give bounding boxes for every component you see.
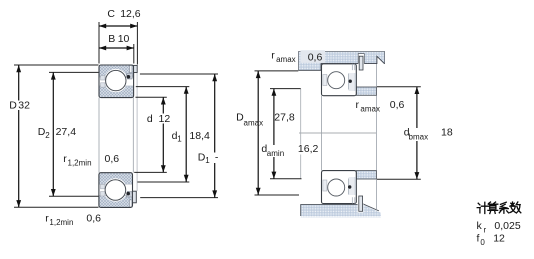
mounted bearing lower	[322, 171, 357, 204]
cage upper	[101, 76, 105, 80]
extension line d1 bottom	[137, 181, 189, 183]
svg-text:12: 12	[159, 113, 171, 125]
dimension line D	[18, 65, 20, 207]
svg-text:amin: amin	[267, 149, 284, 158]
svg-text:1,2min: 1,2min	[68, 159, 92, 168]
extension line D top	[14, 64, 99, 66]
housing upper shoulder block	[299, 52, 322, 71]
svg-text:0,6: 0,6	[105, 153, 120, 165]
svg-text:-: -	[215, 151, 219, 163]
centerline right drawing	[299, 132, 376, 134]
housing lower	[301, 205, 381, 216]
svg-text:f: f	[477, 233, 480, 245]
housing upper edges	[299, 52, 385, 71]
svg-text:27,8: 27,8	[274, 111, 295, 123]
svg-text:18: 18	[441, 126, 453, 138]
raceway marks lower left	[323, 180, 327, 191]
wire: bearing side lines between halves right	[132, 98, 134, 173]
cage lower	[101, 184, 105, 188]
extension line Damax bottom	[255, 194, 300, 196]
dimension line damin	[273, 89, 275, 179]
svg-text:B: B	[108, 33, 115, 45]
glyph xi	[499, 202, 508, 213]
extension line D1 bottom	[140, 197, 218, 199]
shaft shoulder strip upper	[356, 87, 376, 95]
extension line d top	[136, 96, 167, 98]
bearing outline lower	[99, 173, 133, 208]
glyph suan	[488, 202, 498, 214]
circlip wire section upper	[127, 75, 131, 79]
extension line D2 top	[49, 71, 99, 73]
ball mounted lower	[328, 179, 345, 196]
svg-text:12,6: 12,6	[120, 8, 141, 20]
raceway shoulder lines upper	[99, 76, 134, 78]
svg-text:r: r	[356, 99, 360, 111]
ball lower	[105, 180, 126, 201]
extension line D2 bottom	[49, 195, 99, 197]
dimension line dbmax	[416, 87, 418, 180]
housing upper band	[321, 52, 377, 64]
svg-text:D: D	[9, 99, 17, 111]
extension line B right	[133, 44, 135, 64]
svg-text:r: r	[484, 225, 487, 234]
circlip section mounted upper	[349, 80, 352, 83]
svg-text:0,6: 0,6	[390, 99, 405, 111]
housing lower soft bottom	[301, 216, 381, 218]
svg-text:amax: amax	[360, 105, 380, 114]
inner ring upper	[99, 86, 134, 98]
extension line Damax top	[255, 70, 299, 72]
circlip wire section lower	[126, 192, 130, 196]
label d 12	[157, 114, 171, 124]
svg-text:k: k	[477, 220, 483, 232]
circlip groove lower	[129, 200, 132, 207]
extension line D1 top	[140, 73, 218, 75]
extension line dbmax top	[377, 86, 421, 88]
circlip seat lower	[126, 192, 133, 198]
circlip seat upper	[127, 74, 134, 80]
heading 计算系数 (hand drawn glyphs)	[477, 202, 521, 214]
svg-text:16,2: 16,2	[298, 143, 319, 155]
svg-text:0,025: 0,025	[494, 220, 520, 232]
extension line damin top	[270, 88, 301, 90]
snap ring slot upper	[358, 54, 364, 64]
raceway clearing upper	[104, 69, 127, 92]
svg-text:10: 10	[118, 33, 130, 45]
svg-text:d: d	[147, 113, 153, 125]
ball upper	[106, 70, 126, 90]
svg-text:0: 0	[480, 238, 485, 247]
extension line dbmax bottom	[377, 178, 421, 180]
dimension line B	[99, 47, 134, 49]
shaft shoulder strip lower	[356, 171, 376, 179]
svg-text:32: 32	[18, 99, 30, 111]
bearing outline upper	[99, 65, 134, 98]
svg-text:bmax: bmax	[409, 132, 429, 141]
circlip section mounted lower	[348, 185, 351, 188]
dimension line D1	[214, 74, 216, 198]
raceway marks lower right	[349, 177, 356, 195]
housing lower top edge	[301, 204, 379, 216]
extension line damin bottom	[270, 178, 302, 180]
dimension line d1	[185, 87, 187, 182]
label D 32	[17, 101, 31, 111]
svg-text:1,2min: 1,2min	[49, 218, 73, 227]
svg-text:1: 1	[205, 156, 210, 165]
wire: snap ring edge line between halves	[136, 73, 138, 192]
svg-text:0,6: 0,6	[308, 52, 323, 64]
bearing lower half section	[99, 173, 136, 208]
glyph ji	[477, 202, 488, 213]
dimension line Damax	[257, 71, 259, 195]
extension line C left	[98, 22, 100, 64]
inner ring lower	[99, 173, 133, 185]
snap ring upper	[359, 56, 363, 70]
snap ring tab lower	[133, 191, 137, 203]
bearing upper half section	[99, 65, 137, 98]
extension line d bottom	[134, 171, 167, 173]
mounted bearing upper	[322, 64, 357, 96]
snap ring slot lower	[358, 204, 364, 213]
raceway marks upper left	[323, 75, 327, 86]
outer ring upper	[99, 65, 134, 77]
outer ring lower	[99, 196, 133, 208]
label damin 16,2	[266, 145, 291, 157]
glyph shu	[510, 202, 521, 213]
svg-text:0,6: 0,6	[86, 212, 101, 224]
extension line d1 top	[136, 86, 190, 88]
svg-text:amax: amax	[276, 55, 296, 64]
svg-text:2: 2	[45, 131, 50, 140]
dimension line C	[99, 25, 137, 27]
shaft end face line	[300, 89, 302, 179]
housing face line right	[375, 64, 377, 209]
dimension line D2	[52, 72, 54, 196]
svg-text:27,4: 27,4	[56, 126, 77, 138]
bearing side connector lines right drawing	[321, 96, 323, 171]
snap ring tab upper	[134, 65, 138, 72]
wire: bearing side lines between halves left	[98, 98, 100, 173]
snap ring lower	[359, 196, 363, 211]
svg-text:1: 1	[177, 135, 182, 144]
raceway clearing lower	[104, 178, 127, 201]
raceway shoulder lines lower	[99, 183, 133, 185]
svg-text:C: C	[107, 8, 115, 20]
svg-text:r: r	[271, 50, 275, 62]
housing upper chamfer corner	[377, 52, 385, 64]
svg-text:amax: amax	[244, 118, 264, 127]
label dbmax 18	[407, 128, 433, 141]
ball mounted upper	[328, 72, 345, 89]
raceway marks upper right	[349, 73, 356, 91]
extension line D bottom	[14, 206, 99, 208]
dimension line d	[162, 97, 164, 172]
svg-text:12: 12	[493, 233, 505, 245]
circlip groove upper	[130, 65, 133, 72]
svg-text:18,4: 18,4	[189, 130, 210, 142]
extension line C right	[136, 22, 138, 65]
